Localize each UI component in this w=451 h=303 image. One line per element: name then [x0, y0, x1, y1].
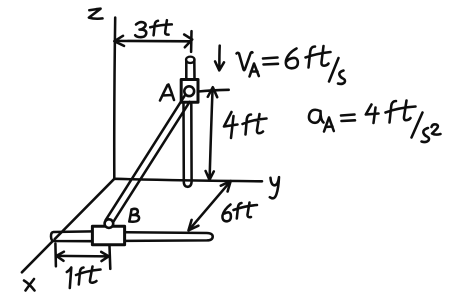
label z — [89, 9, 103, 19]
text 6 of dimension — [222, 205, 230, 222]
dimension 4 ft up arrowhead — [208, 87, 217, 97]
text s of velocity — [338, 71, 345, 84]
velocity down arrow — [215, 46, 224, 71]
label x — [24, 279, 35, 291]
text ft of 3 ft — [150, 20, 172, 35]
text V — [237, 52, 253, 70]
text 6 — [286, 49, 298, 69]
dimension 1 ft left tick — [54, 244, 57, 267]
text 4 of dimension — [224, 112, 238, 138]
dimension 3 ft left arrowhead — [114, 36, 124, 46]
dimension 6 ft upper arrowhead — [221, 181, 231, 192]
dimension 6 ft line — [189, 181, 231, 230]
text 3 — [135, 22, 146, 37]
y-axis — [114, 179, 262, 182]
rail right segment — [125, 232, 213, 241]
cylinder top of vertical rod — [186, 60, 194, 79]
text 1 — [67, 268, 72, 289]
cylinder top ellipse — [186, 57, 195, 63]
label y — [270, 177, 279, 198]
rail left segment — [51, 231, 92, 241]
label A — [160, 85, 174, 101]
text subscript A of V — [250, 64, 259, 77]
text slash of acceleration — [412, 113, 423, 138]
dimension 1 ft line — [56, 255, 109, 258]
text Ft of velocity — [306, 46, 331, 68]
dimension 3 ft right arrowhead — [184, 35, 192, 48]
text 4 of acceleration — [366, 105, 379, 124]
label B — [129, 209, 139, 222]
dimension 1 ft right arrowhead — [101, 252, 109, 261]
dimension 3 ft line — [116, 40, 190, 43]
rod AB — [106, 96, 190, 223]
text equals — [263, 58, 278, 65]
text Ft of 4 ft dimension — [243, 114, 267, 135]
dimension 1 ft right tick — [108, 246, 111, 269]
text subscript A of a — [324, 118, 334, 132]
dimension 4 ft top tick — [199, 90, 229, 92]
dimension 6 ft lower arrowhead — [189, 220, 199, 231]
text a — [309, 110, 324, 123]
text Ft of acceleration — [386, 101, 416, 123]
vertical rod below collar — [184, 103, 192, 187]
text equals of acceleration — [341, 115, 355, 122]
collar at A — [181, 80, 198, 103]
dimension 3 ft extension tick — [190, 31, 193, 52]
text ft of 1 ft — [76, 267, 101, 285]
text squared exponent — [432, 124, 441, 134]
knob at B — [105, 219, 114, 228]
dimension 1 ft left arrowhead — [56, 252, 64, 261]
text slash of velocity — [329, 58, 339, 82]
dimension 4 ft down arrowhead — [206, 171, 214, 180]
pin circle at A — [184, 86, 194, 96]
dimension 4 ft line — [210, 88, 213, 179]
text Ft of 6 ft dimension — [234, 203, 258, 219]
text s of acceleration — [422, 128, 430, 142]
x-axis — [22, 179, 114, 272]
slider block at B — [92, 226, 124, 244]
z-axis — [113, 18, 117, 179]
